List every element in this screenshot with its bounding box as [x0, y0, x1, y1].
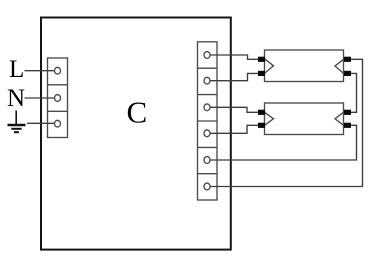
lamp LA1 tube body: [265, 50, 344, 82]
lamp LA2 pin 3 (top-right): [344, 110, 351, 115]
TB2 screw 3: [204, 104, 210, 111]
lamp LA1 left filament chevron: [265, 59, 274, 74]
lamp LA1 right filament chevron: [335, 59, 344, 73]
TB2 screw 6: [204, 183, 210, 190]
lamp LA1 pin 3 (top-right): [344, 57, 351, 62]
TB1 screw 2: [55, 95, 61, 102]
wire N to terminal 2: [25, 97, 55, 99]
wire TB2-6 to lamp LA1 pin 3: [210, 59, 363, 186]
enclosure box C (control gear): [41, 18, 231, 250]
wire TB2-2 to lamp LA1 pin 2: [210, 73, 258, 80]
TB2 screw 5: [204, 157, 210, 164]
lamp LA2 tube body: [265, 103, 344, 135]
lamp LA2 pin 1 (top-left): [258, 110, 265, 115]
lamp LA2 pin 2 (bottom-left): [258, 123, 265, 128]
wire TB2-3 to lamp LA2 pin 1: [210, 107, 258, 112]
lamp LA1 pin 4 (bottom-right): [344, 71, 351, 76]
terminal block TB1 (mains input, 3 poles): [48, 58, 68, 138]
wire L to terminal 1: [25, 70, 55, 72]
wire jumper LA1 pin 4 to LA2 pin 3: [351, 73, 357, 112]
TB1 screw 3: [55, 120, 61, 127]
svg-text:N: N: [7, 85, 25, 112]
wire TB2-4 to lamp LA2 pin 2: [210, 125, 258, 133]
wire TB2-5 to lamp LA2 pin 4: [210, 125, 357, 160]
wire earth to terminal 3: [27, 122, 55, 124]
TB2 screw 1: [204, 52, 210, 59]
svg-text:C: C: [127, 95, 148, 130]
lamp LA2 left filament chevron: [265, 112, 274, 125]
TB2 screw 4: [204, 130, 210, 137]
terminal block TB2 (lamp output, 6 poles): [198, 42, 218, 200]
lamp LA2 pin 4 (bottom-right): [344, 123, 351, 128]
lamp LA1 pin 1 (top-left): [258, 57, 265, 62]
TB2 screw 2: [204, 77, 210, 84]
lamp LA1 pin 2 (bottom-left): [258, 71, 265, 76]
TB1 screw 1: [55, 67, 61, 74]
lamp LA2 right filament chevron: [335, 112, 344, 125]
wire TB2-1 to lamp LA1 pin 1: [210, 55, 258, 59]
svg-text:L: L: [9, 56, 24, 83]
ground symbol (earth): [8, 111, 26, 133]
